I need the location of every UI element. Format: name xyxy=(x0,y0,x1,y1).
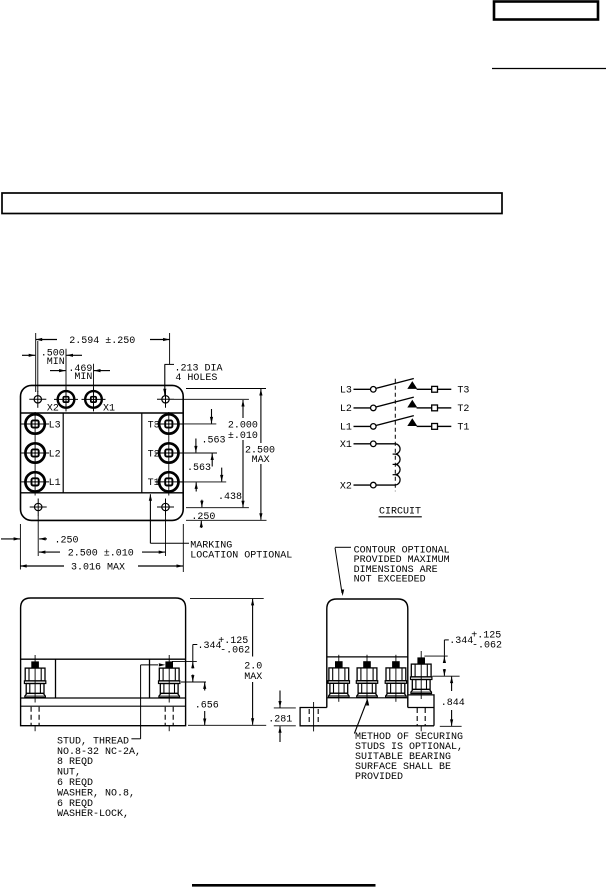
svg-text:T3: T3 xyxy=(457,385,469,396)
extension line: tab bottom left xyxy=(274,725,296,727)
stud front-right base flare xyxy=(159,693,180,697)
X2 centerline extension up xyxy=(65,349,67,390)
stud side-4 lower nut xyxy=(412,680,430,690)
leader: MARKING LOCATION OPTIONAL xyxy=(149,494,151,543)
circuit terminal square T1 xyxy=(432,424,438,430)
mounting hole top right xyxy=(162,396,169,403)
plan view: marking area right edge xyxy=(141,413,143,493)
svg-text:L1: L1 xyxy=(340,423,352,434)
svg-text:6 REQD: 6 REQD xyxy=(57,778,93,789)
circuit terminal square T3 xyxy=(432,386,438,392)
svg-text:.563: .563 xyxy=(187,463,211,474)
svg-text:X2: X2 xyxy=(47,404,59,415)
extension line: front base bottom right xyxy=(188,724,266,726)
terminal L3 center dot xyxy=(34,423,36,425)
side view: pedestal for 4th stud xyxy=(408,695,434,726)
extension line: body right edge down xyxy=(182,524,184,572)
svg-text:.438: .438 xyxy=(218,492,242,503)
circuit switch blade L1 xyxy=(376,416,414,426)
svg-text:WASHER, NO.8,: WASHER, NO.8, xyxy=(57,788,135,799)
bottom-left hole centerline extension down xyxy=(37,515,39,556)
plan view: T-column centerline xyxy=(168,412,170,496)
mounting hole bottom left xyxy=(35,503,42,510)
stud side-4 upper nut xyxy=(411,664,431,677)
svg-text:MARKING: MARKING xyxy=(190,540,232,551)
stud front-right threaded cap xyxy=(165,661,173,667)
stud front-right washer xyxy=(159,681,180,684)
dim 2.0 MAX xyxy=(252,599,254,657)
svg-text:.563: .563 xyxy=(202,436,226,447)
stud side-4 base flare xyxy=(411,689,432,693)
extension line: top hole row xyxy=(174,398,249,400)
terminal X1 inner nut square xyxy=(91,397,96,402)
svg-text:CIRCUIT: CIRCUIT xyxy=(379,507,421,518)
svg-text:T2: T2 xyxy=(148,449,160,460)
extension line: T2 row xyxy=(179,452,217,454)
leader: CONTOUR OPTIONAL note xyxy=(335,546,351,548)
terminal X1 body circle xyxy=(85,391,102,408)
dim 2.500 +-.010 bottom xyxy=(39,551,60,553)
stud side-1 threaded cap xyxy=(335,661,343,667)
svg-text:X1: X1 xyxy=(340,440,352,451)
stud front-left hidden shank through base (dashed) xyxy=(30,707,32,726)
svg-text:6 REQD: 6 REQD xyxy=(57,799,93,810)
terminal X2 inner nut square xyxy=(63,397,68,402)
dim .344 front arrows xyxy=(192,662,194,669)
terminal L1 inner nut square xyxy=(32,478,39,485)
header rule line (top right) xyxy=(492,68,606,70)
svg-text:STUD, THREAD: STUD, THREAD xyxy=(57,736,129,747)
stud side-3 lower nut xyxy=(387,683,405,693)
terminal L3 horizontal centerline xyxy=(21,423,49,425)
svg-text:MAX: MAX xyxy=(252,455,270,466)
stud side-4 washer xyxy=(411,677,432,680)
leader: METHOD OF SECURING note xyxy=(354,701,367,734)
extension line: front body top right xyxy=(190,597,264,599)
extension line: side stud washer xyxy=(432,675,459,677)
circuit wire from L1 xyxy=(354,425,371,427)
stud side-2 lower nut xyxy=(358,683,376,693)
title block box (top right) xyxy=(494,2,598,20)
svg-text:NUT,: NUT, xyxy=(57,768,81,779)
circuit wire to T3 square xyxy=(417,388,432,390)
extension line: side stud top xyxy=(424,655,447,657)
svg-text:L2: L2 xyxy=(49,449,61,460)
circuit wire to T2 xyxy=(438,407,452,409)
plan view: terminal band top line xyxy=(21,412,184,414)
terminal T1 center dot xyxy=(168,481,170,483)
terminal X2 crosshair xyxy=(54,398,78,400)
stud front-left threaded cap xyxy=(31,661,39,667)
svg-text:MIN: MIN xyxy=(47,357,65,368)
plan view: L-column centerline xyxy=(34,412,36,496)
terminal T2 horizontal centerline xyxy=(155,452,183,454)
circuit wire X1 to coil xyxy=(376,443,395,445)
front view: right recess wall xyxy=(149,659,151,698)
terminal T3 inner nut square xyxy=(165,420,172,427)
leader to stud cap (front view) xyxy=(140,665,142,739)
circuit contact circle X1 xyxy=(371,441,377,447)
dim 2.000 +-.010 xyxy=(242,400,244,418)
circuit switch blade L2 xyxy=(376,397,414,407)
dim 2.500 MAX xyxy=(260,389,262,443)
stud side-1 upper nut xyxy=(329,668,349,681)
circuit wire from L3 xyxy=(354,388,371,390)
stud front-left base flare xyxy=(25,693,46,697)
dim .344 front bracket xyxy=(193,644,198,646)
stud front-left washer xyxy=(24,681,45,684)
dim .656 xyxy=(204,682,206,690)
stud front-right hidden shank through base (dashed) xyxy=(164,707,166,726)
top-left hole centerline extension up xyxy=(37,341,39,392)
terminal L1 horizontal centerline xyxy=(21,481,49,483)
stud front-right upper nut xyxy=(159,668,179,681)
terminal T1 body circle xyxy=(159,472,178,491)
bottom page rule xyxy=(192,884,376,887)
circuit wire from X1 xyxy=(354,443,371,445)
extension line: body top edge right xyxy=(186,388,266,390)
stud side-2 base flare xyxy=(357,693,378,697)
plan view: terminal band bottom line xyxy=(21,492,184,494)
side view: pedestal bottom edge xyxy=(408,707,434,709)
terminal L2 inner nut square xyxy=(32,449,39,456)
circuit wire to T2 square xyxy=(417,407,432,409)
svg-text:LOCATION OPTIONAL: LOCATION OPTIONAL xyxy=(190,551,292,562)
terminal T1 horizontal centerline xyxy=(155,481,183,483)
circuit contact circle L3 xyxy=(371,387,377,393)
extension line: front stud top xyxy=(172,660,197,662)
mounting hole bottom right xyxy=(162,503,169,510)
dim 2.594 +-.250 extension line left xyxy=(35,333,37,392)
svg-text:MIN: MIN xyxy=(74,372,92,383)
stud side-3 centerline xyxy=(395,655,397,702)
circuit switch blade L3 xyxy=(376,379,414,389)
terminal T3 center dot xyxy=(168,423,170,425)
circuit wire to T1 square xyxy=(417,425,432,427)
terminal T3 body circle xyxy=(159,414,178,433)
terminal T2 center dot xyxy=(168,452,170,454)
stud side-2 threaded cap xyxy=(363,661,371,667)
svg-text:.656: .656 xyxy=(195,701,219,712)
svg-text:L3: L3 xyxy=(340,385,352,396)
svg-text:2.000: 2.000 xyxy=(228,420,258,431)
terminal L2 body circle xyxy=(25,443,44,462)
svg-text:4 HOLES: 4 HOLES xyxy=(175,373,217,384)
terminal X1 crosshair xyxy=(82,398,106,400)
circuit contact circle L1 xyxy=(371,424,377,430)
.213 leader bracket xyxy=(165,363,175,365)
armature dashed link line xyxy=(394,379,396,492)
svg-text:L2: L2 xyxy=(340,404,352,415)
stud front-right centerline xyxy=(168,655,170,703)
terminal L3 inner nut square xyxy=(32,420,39,427)
side view: left base tab xyxy=(300,708,434,726)
svg-text:NO.8-32 NC-2A,: NO.8-32 NC-2A, xyxy=(57,747,141,758)
side view: body outline xyxy=(327,599,408,708)
front view: base plate top edge xyxy=(21,705,186,707)
svg-text:T1: T1 xyxy=(148,478,160,489)
circuit wire from L2 xyxy=(354,407,371,409)
stud front-left centerline xyxy=(34,655,36,703)
stud front-right lower nut xyxy=(160,684,178,694)
terminal L1 center dot xyxy=(34,481,36,483)
svg-text:.250: .250 xyxy=(55,535,79,546)
terminal L2 horizontal centerline xyxy=(21,452,49,454)
stud side-3 base flare xyxy=(386,693,407,697)
svg-text:.844: .844 xyxy=(441,698,465,709)
terminal T2 inner nut square xyxy=(165,449,172,456)
stud side-3 threaded cap xyxy=(392,661,400,667)
mounting hole top left xyxy=(34,396,41,403)
front view: recess top edge (full width) xyxy=(21,658,186,660)
dim 2.594 +-.250 xyxy=(36,339,57,341)
stud side-3 upper nut xyxy=(386,668,406,681)
svg-text:T1: T1 xyxy=(457,423,469,434)
svg-text:X1: X1 xyxy=(103,404,115,415)
circuit wire to T3 xyxy=(438,388,452,390)
dim .344 side arrows xyxy=(443,657,445,664)
X1 centerline extension up xyxy=(93,364,95,390)
svg-text:2.500 ±.010: 2.500 ±.010 xyxy=(68,549,134,560)
stud side-2 upper nut xyxy=(357,668,377,681)
stud side-1 base flare xyxy=(329,693,350,697)
svg-text:L1: L1 xyxy=(49,478,61,489)
stud front-left lower nut xyxy=(26,684,44,694)
svg-text:±.010: ±.010 xyxy=(228,431,258,442)
bottom-right hole centerline extension down xyxy=(165,515,167,556)
svg-text:WASHER-LOCK,: WASHER-LOCK, xyxy=(57,809,129,820)
front view: left recess wall xyxy=(55,659,57,698)
svg-text:MAX: MAX xyxy=(244,672,262,683)
stud side-2 washer xyxy=(356,681,377,684)
stud side-1 centerline xyxy=(338,655,340,702)
side view: recess floor xyxy=(327,697,408,699)
stud side-4 centerline xyxy=(420,651,422,699)
terminal X2 body circle xyxy=(58,391,75,408)
stud front-left upper nut xyxy=(25,668,45,681)
svg-text:.344: .344 xyxy=(449,636,473,647)
circuit wire X2 to coil xyxy=(376,484,395,486)
dim .844 xyxy=(451,677,453,691)
dim 2.594 +-.250 extension line right xyxy=(169,333,171,364)
circuit wire to T1 xyxy=(438,425,452,427)
stud side-4 threaded cap xyxy=(417,657,425,663)
extension line: front stud washer xyxy=(181,681,206,683)
extension line: T3 row xyxy=(179,423,216,425)
svg-text:-.062: -.062 xyxy=(220,646,250,657)
terminal L2 center dot xyxy=(34,452,36,454)
svg-text:PROVIDED: PROVIDED xyxy=(355,772,403,783)
svg-text:8 REQD: 8 REQD xyxy=(57,757,93,768)
stud side-1 lower nut xyxy=(330,683,348,693)
circuit fixed contact triangle T1 xyxy=(407,418,417,426)
extension line: T1 row xyxy=(179,481,226,483)
extension line: tab top left xyxy=(274,707,296,709)
circuit terminal square T2 xyxy=(432,405,438,411)
terminal L3 body circle xyxy=(25,414,44,433)
svg-text:L3: L3 xyxy=(49,420,61,431)
svg-text:.281: .281 xyxy=(268,715,292,726)
svg-text:T3: T3 xyxy=(148,420,160,431)
svg-text:X2: X2 xyxy=(340,481,352,492)
stud side-3 washer xyxy=(385,681,406,684)
circuit contact circle X2 xyxy=(371,482,377,488)
stud side-1 washer xyxy=(328,681,349,684)
svg-text:NOT EXCEEDED: NOT EXCEEDED xyxy=(354,575,426,586)
relay coil xyxy=(396,444,400,485)
circuit contact circle L2 xyxy=(371,405,377,411)
side view: tab hidden hole (dashed) xyxy=(308,709,310,725)
terminal T2 body circle xyxy=(159,443,178,462)
terminal T3 horizontal centerline xyxy=(155,423,183,425)
dim .281 xyxy=(279,691,281,708)
extension line: body left edge down xyxy=(19,524,21,570)
extension line: side base bottom right xyxy=(440,725,462,727)
front view: body bottom edge xyxy=(21,697,186,699)
side view: recess top edge xyxy=(327,656,408,658)
dim 3.016 MAX xyxy=(20,565,64,567)
stud side-2 centerline xyxy=(366,655,368,702)
circuit fixed contact triangle T3 xyxy=(407,381,417,389)
side view: tab hole centerline xyxy=(313,702,315,731)
svg-text:2.594 ±.250: 2.594 ±.250 xyxy=(69,336,135,347)
svg-text:3.016 MAX: 3.016 MAX xyxy=(71,562,125,573)
plan view: relay body outline (rounded rect) xyxy=(21,385,184,520)
stud side-4 hidden shank through base (dashed) xyxy=(416,708,418,726)
dim .344 side bracket xyxy=(444,639,448,641)
svg-text:T2: T2 xyxy=(457,404,469,415)
extension line: bottom hole row xyxy=(186,507,249,509)
dim .250 bottom left xyxy=(1,538,20,540)
blanked heading band xyxy=(2,193,502,214)
svg-text:.250: .250 xyxy=(191,512,215,523)
front view: body outline xyxy=(21,598,186,726)
plan view: marking area left edge xyxy=(62,413,64,493)
extension line: body bottom edge right xyxy=(186,519,267,521)
CIRCUIT underline xyxy=(379,516,422,518)
terminal L1 body circle xyxy=(25,472,44,491)
circuit fixed contact triangle T2 xyxy=(407,400,417,408)
terminal T1 inner nut square xyxy=(165,478,172,485)
svg-text:-.062: -.062 xyxy=(472,641,502,652)
circuit wire from X2 xyxy=(354,484,371,486)
